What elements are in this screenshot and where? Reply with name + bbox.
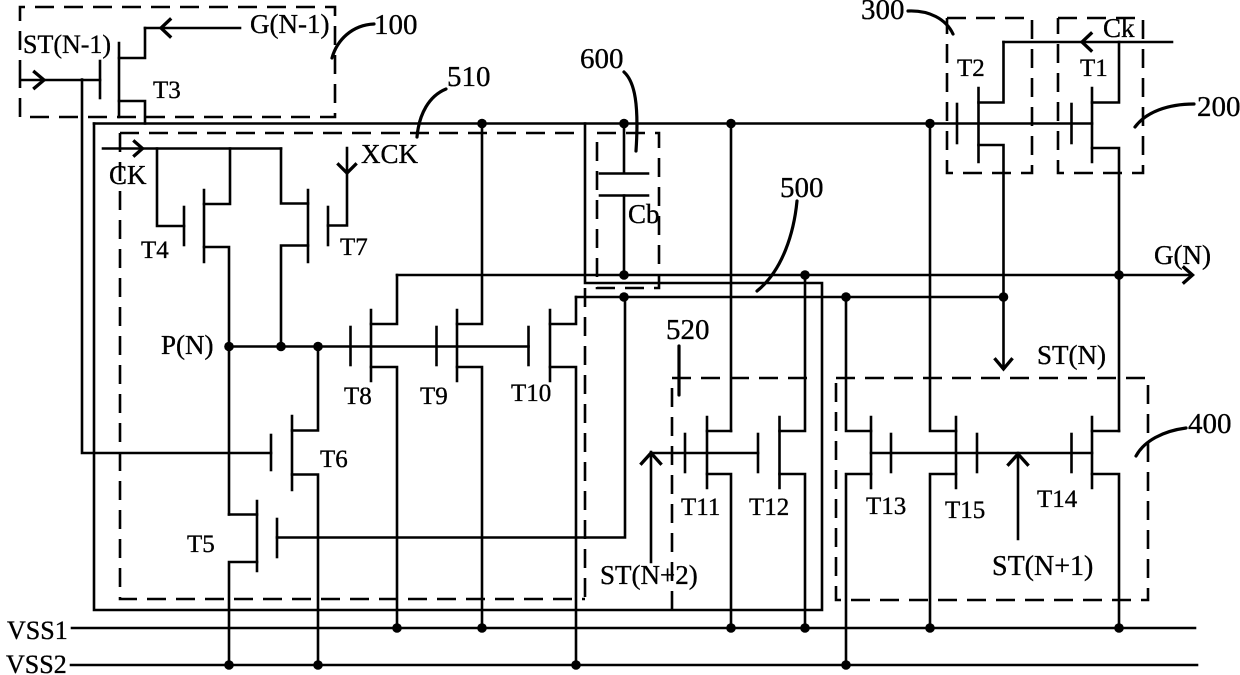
- svg-text:400: 400: [1188, 408, 1232, 440]
- svg-text:T13: T13: [866, 493, 906, 520]
- svg-text:Cb: Cb: [628, 199, 660, 229]
- svg-text:520: 520: [666, 314, 710, 346]
- svg-text:500: 500: [780, 172, 824, 204]
- svg-text:G(N-1): G(N-1): [250, 9, 329, 39]
- svg-text:T3: T3: [153, 77, 181, 104]
- svg-text:Ck: Ck: [1103, 13, 1135, 43]
- svg-text:T2: T2: [957, 55, 985, 82]
- svg-text:T4: T4: [141, 237, 169, 264]
- svg-text:G(N): G(N): [1154, 240, 1211, 270]
- svg-text:ST(N-1): ST(N-1): [23, 30, 111, 59]
- svg-text:T6: T6: [320, 446, 348, 473]
- svg-text:VSS2: VSS2: [6, 650, 67, 675]
- svg-text:510: 510: [447, 61, 491, 93]
- svg-text:T14: T14: [1037, 486, 1078, 513]
- svg-text:T12: T12: [749, 494, 789, 521]
- svg-text:600: 600: [580, 43, 624, 75]
- svg-text:T11: T11: [681, 494, 720, 521]
- svg-text:VSS1: VSS1: [7, 616, 68, 645]
- svg-text:T8: T8: [344, 383, 372, 410]
- svg-text:ST(N+2): ST(N+2): [600, 560, 698, 590]
- svg-text:P(N): P(N): [161, 330, 214, 360]
- svg-text:ST(N): ST(N): [1037, 340, 1106, 370]
- svg-text:T7: T7: [340, 234, 368, 261]
- svg-text:ST(N+1): ST(N+1): [992, 551, 1093, 582]
- svg-text:T5: T5: [187, 531, 215, 558]
- svg-text:CK: CK: [109, 160, 147, 190]
- svg-text:T1: T1: [1080, 55, 1108, 82]
- svg-text:300: 300: [861, 0, 905, 26]
- svg-text:T15: T15: [945, 497, 985, 524]
- svg-text:200: 200: [1197, 91, 1240, 123]
- svg-text:XCK: XCK: [361, 139, 419, 169]
- svg-text:T10: T10: [511, 380, 551, 407]
- svg-text:100: 100: [374, 9, 418, 41]
- svg-text:T9: T9: [420, 383, 448, 410]
